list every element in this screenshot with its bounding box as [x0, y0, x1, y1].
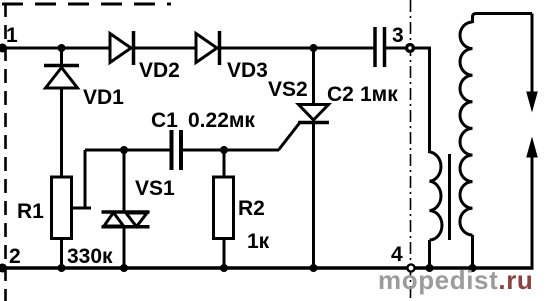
- svg-text:VD3: VD3: [227, 59, 268, 82]
- junction node top of VS1: [120, 146, 128, 154]
- svg-text:4: 4: [391, 243, 403, 266]
- capacitor C2 (1uF): [327, 27, 398, 106]
- svg-text:C1: C1: [151, 109, 178, 132]
- wire: VS2 cathode lead: [312, 123, 315, 268]
- svg-text:mopedist.ru: mopedist.ru: [378, 265, 533, 295]
- wire: C1 to R2 node and VS2 gate: [183, 149, 279, 152]
- wire: top bus terminal1 to VD2: [0, 47, 110, 50]
- wire: R2 bottom lead: [223, 238, 226, 268]
- capacitor C1 (0.22uF): [151, 109, 255, 170]
- junction node VS1 bottom: [120, 264, 128, 272]
- wire: terminal 3 to primary winding: [414, 48, 430, 153]
- svg-text:1мк: 1мк: [360, 83, 398, 106]
- resistor R1 (variable, 330k): [17, 177, 113, 268]
- wire: R1 bottom lead: [60, 238, 63, 268]
- junction node primary bottom: [426, 264, 434, 272]
- svg-text:R2: R2: [238, 197, 265, 220]
- wire: gate bus left (wiper to C1): [85, 149, 170, 152]
- terminal 2: [0, 245, 21, 273]
- wire: R1 wiper riser: [84, 150, 87, 208]
- wire: secondary bottom lead: [471, 235, 474, 268]
- wire: VS1 top lead: [123, 150, 126, 212]
- svg-text:C2: C2: [327, 83, 354, 106]
- wire: VD2 to VD3: [135, 47, 196, 50]
- wire: VD3 to C2: [221, 47, 374, 50]
- svg-text:0.22мк: 0.22мк: [188, 109, 255, 132]
- terminal 3: [392, 24, 413, 51]
- diode VD3: [196, 31, 268, 82]
- transformer T1 primary winding: [430, 152, 442, 240]
- wire: VD1 to R1: [60, 88, 63, 177]
- svg-text:VD2: VD2: [139, 59, 180, 82]
- wire: C2 to terminal 3: [386, 47, 407, 50]
- junction node R1 bottom: [58, 264, 66, 272]
- transformer T1 secondary winding: [460, 22, 473, 235]
- transformer core: [448, 154, 451, 240]
- wire: R2 top lead: [223, 150, 226, 177]
- watermark mopedist.ru: [378, 265, 533, 295]
- svg-text:330к: 330к: [67, 245, 113, 268]
- svg-text:3: 3: [392, 24, 404, 47]
- svg-text:R1: R1: [17, 200, 44, 223]
- svg-text:2: 2: [9, 245, 21, 268]
- junction node secondary bottom: [469, 264, 477, 272]
- thyristor VS2: [268, 48, 329, 150]
- dashed enclosure left edge: [4, 3, 7, 301]
- bottom bus wire: [0, 266, 534, 270]
- wire: VS1 bottom lead: [123, 227, 126, 268]
- junction node top of VS2 branch: [310, 44, 318, 52]
- svg-text:1: 1: [6, 24, 18, 47]
- output arrow (down): [526, 14, 538, 113]
- svg-text:VS2: VS2: [268, 78, 308, 101]
- boundary dash-dot line: [410, 0, 412, 301]
- diode VD1: [44, 48, 124, 109]
- svg-text:VS1: VS1: [135, 177, 175, 200]
- junction node VS2 bottom: [310, 264, 318, 272]
- diac VS1: [102, 177, 176, 227]
- dashed enclosure top edge: [2, 3, 171, 6]
- diode VD2: [110, 31, 180, 82]
- wire: secondary top lead: [473, 14, 533, 24]
- junction node R2 bottom: [220, 264, 228, 272]
- svg-text:1к: 1к: [247, 230, 270, 253]
- wire: primary bottom lead: [428, 240, 431, 268]
- output arrow (up): [526, 137, 538, 269]
- junction node top of VD1 branch: [58, 44, 66, 52]
- terminal 4: [391, 243, 415, 272]
- svg-text:VD1: VD1: [83, 86, 124, 109]
- junction node C1/R2: [220, 146, 228, 154]
- terminal 1: [0, 24, 18, 53]
- resistor R2 (1k): [214, 177, 270, 253]
